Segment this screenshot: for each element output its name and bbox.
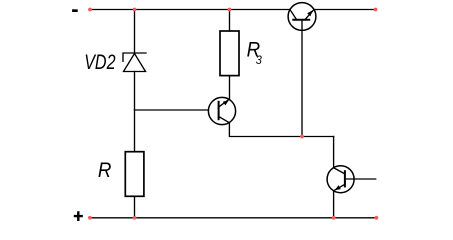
transistor Q2 base bar	[218, 102, 220, 119]
transistor Q2 collector diagonal	[219, 99, 230, 107]
transistor Q1 base bar	[293, 19, 309, 21]
wire base of middle transistor	[135, 109, 209, 111]
node marker top rail left end	[88, 8, 92, 12]
svg-text:R: R	[98, 159, 112, 182]
transistor Q3 collector diagonal	[334, 168, 345, 174]
wire bottom rail (plus rail)	[90, 217, 377, 219]
node marker junction Q1 base / emitter wire	[300, 135, 304, 139]
transistor Q1 (top) circle	[288, 3, 316, 31]
node marker junction VD2 branch / top rail	[133, 8, 137, 12]
label plus terminal	[74, 211, 83, 221]
wire VD2 branch upper stem	[134, 10, 136, 54]
wire resistor R to plus rail	[134, 196, 136, 218]
node marker junction R / bottom rail	[133, 216, 137, 220]
wire Q3 emitter to plus rail	[333, 191, 335, 218]
wire top rail left segment (minus rail)	[90, 9, 290, 11]
wire R3 upper stem	[229, 10, 231, 32]
transistor Q3 (bottom right) circle	[327, 166, 354, 193]
wire R3 lower stem to middle transistor collector	[229, 76, 231, 100]
resistor R3 body	[220, 31, 239, 76]
zener diode VD2 cathode bar	[123, 53, 146, 61]
transistor Q2 emitter diagonal	[219, 117, 230, 123]
label minus terminal	[72, 9, 78, 12]
wire Q3 base lead right	[345, 178, 376, 180]
transistor Q2 (middle) circle	[208, 97, 235, 124]
transistor Q1 right diagonal (emitter with arrow)	[305, 10, 314, 20]
wire VD2 branch lower stem to resistor R	[134, 72, 136, 152]
transistor Q3 base bar	[344, 171, 346, 186]
transistor Q3 emitter arrow	[335, 185, 341, 190]
zener diode VD2 triangle	[124, 54, 146, 72]
wire Q2 emitter to Q3 collector (L-shaped)	[229, 123, 333, 137]
node marker junction Q3 emitter / bottom rail	[332, 216, 336, 220]
node marker bottom rail left end	[88, 216, 92, 220]
wire top rail right segment	[314, 9, 375, 11]
transistor Q2 emitter arrow	[223, 100, 229, 105]
transistor Q1 left diagonal	[290, 10, 297, 20]
svg-text:3: 3	[256, 53, 263, 67]
svg-text:VD2: VD2	[84, 50, 116, 74]
transistor Q1 emitter arrow	[307, 10, 313, 16]
transistor Q3 emitter diagonal (with arrow)	[334, 184, 345, 190]
resistor R body	[125, 152, 144, 197]
node marker top rail right end	[374, 8, 378, 12]
node marker bottom rail right end	[375, 216, 379, 220]
node marker junction R3 branch / top rail	[228, 8, 232, 12]
wire node to Q3 collector	[333, 137, 335, 168]
wire Q1 base lead down to node	[301, 20, 303, 137]
